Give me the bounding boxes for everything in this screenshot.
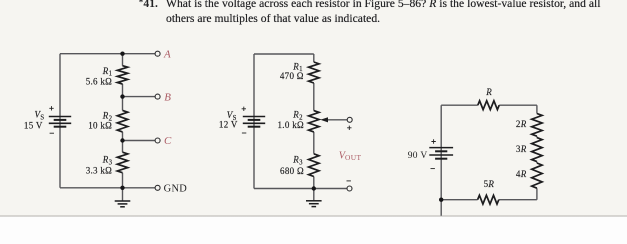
svg-text:2R: 2R [516, 119, 527, 129]
svg-text:R: R [485, 87, 492, 97]
svg-text:VOUT: VOUT [339, 150, 362, 162]
svg-text:470 Ω: 470 Ω [280, 71, 304, 81]
svg-text:A: A [163, 48, 171, 60]
svg-text:1.0 kΩ: 1.0 kΩ [278, 120, 305, 130]
svg-text:10 kΩ: 10 kΩ [88, 120, 112, 130]
svg-text:3.3 kΩ: 3.3 kΩ [86, 165, 113, 175]
svg-text:12 V: 12 V [219, 120, 238, 130]
svg-text:90 V: 90 V [408, 151, 428, 161]
svg-text:5R: 5R [484, 179, 495, 189]
svg-text:680 Ω: 680 Ω [280, 166, 304, 176]
svg-text:C: C [164, 135, 172, 147]
svg-text:GND: GND [164, 183, 188, 194]
svg-text:4R: 4R [516, 169, 527, 179]
svg-text:R3: R3 [292, 154, 303, 166]
svg-text:5.6 kΩ: 5.6 kΩ [86, 76, 113, 86]
svg-text:B: B [164, 91, 171, 103]
svg-text:3R: 3R [516, 144, 527, 154]
svg-text:15 V: 15 V [24, 121, 43, 131]
